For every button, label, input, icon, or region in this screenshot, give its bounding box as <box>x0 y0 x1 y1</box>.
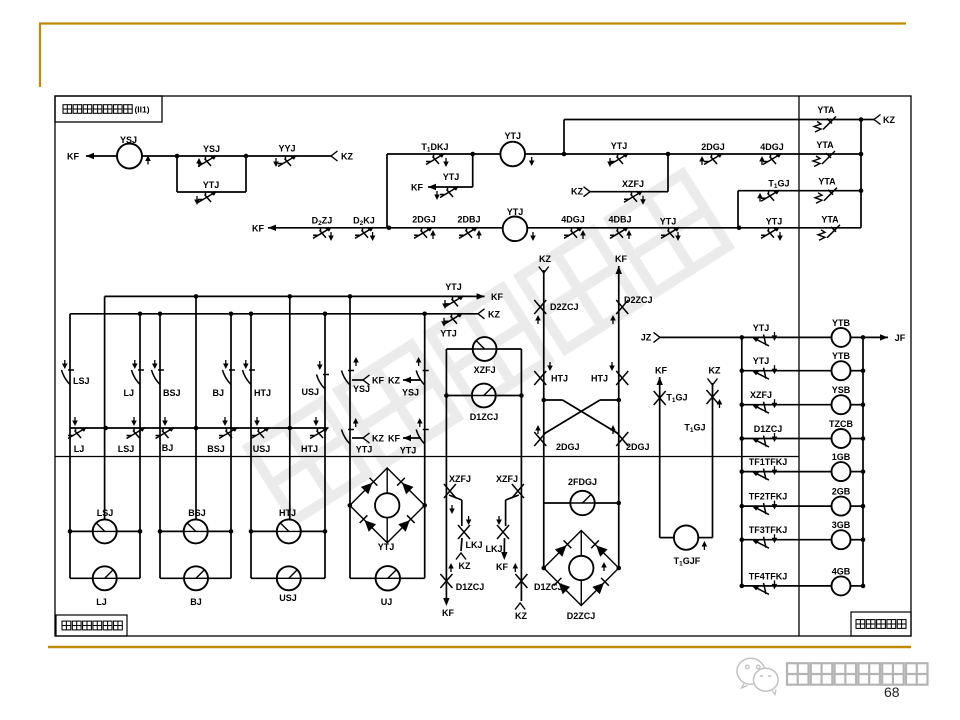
arrow up right 2DGJ <box>612 428 614 434</box>
svg-text:T1GJF: T1GJF <box>674 556 701 568</box>
vertical divider between signal building and control console <box>798 96 800 636</box>
svg-text:YTA: YTA <box>816 140 834 150</box>
svg-text:LJ: LJ <box>96 597 107 607</box>
contact YTJ (rail1 right) <box>445 296 464 307</box>
arrow down above LJ <box>134 360 136 366</box>
dropper YSJ-left vertical <box>349 296 351 578</box>
node B1 <box>470 152 475 157</box>
contact YTA (row0) <box>823 117 836 130</box>
console row TF3TFKJ -> 3GB <box>740 537 745 542</box>
arrow up right D2ZCJ <box>612 318 614 324</box>
contact YSJ (right dropper) <box>416 371 429 386</box>
node rail3 x196 <box>194 426 199 431</box>
arrow down at YTJ contact <box>196 196 198 202</box>
wire YTJ coil to node B2 <box>525 153 564 155</box>
svg-text:BSJ: BSJ <box>163 388 181 398</box>
dropper YSJ-right vertical <box>424 314 426 579</box>
svg-text:TF4TFKJ: TF4TFKJ <box>749 571 788 581</box>
terminal KF (branch) <box>428 184 436 190</box>
contact 2DBJ <box>459 227 478 238</box>
row2 wire <box>738 190 861 192</box>
svg-text:TZCB: TZCB <box>829 419 853 429</box>
rail3 wire <box>70 427 327 429</box>
rail2 wire <box>70 313 478 315</box>
arrow down above HTJ rail3 <box>315 417 317 423</box>
arrow down above USJ <box>319 361 321 367</box>
svg-text:YTJ: YTJ <box>443 172 460 182</box>
console row YTJ -> YTB <box>740 368 745 373</box>
svg-text:D1ZCJ: D1ZCJ <box>456 582 485 592</box>
svg-text:2FDGJ: 2FDGJ <box>568 477 597 487</box>
node B3 <box>666 152 671 157</box>
svg-text:BSJ: BSJ <box>188 508 206 518</box>
svg-text:D2ZCJ: D2ZCJ <box>624 295 653 305</box>
relay coil XZFJ <box>446 348 472 350</box>
footer text 考试复习资料 <box>787 663 809 685</box>
svg-text:D2ZCJ: D2ZCJ <box>567 611 596 621</box>
svg-text:TF3TFKJ: TF3TFKJ <box>749 525 788 535</box>
arrow up above YSJ right <box>418 360 420 366</box>
arrow down above LSJ <box>64 360 66 366</box>
arrow down mid left vertical <box>549 362 551 368</box>
arrow down above BJ <box>225 360 227 366</box>
console row XZFJ -> YSB <box>740 402 745 407</box>
relay coil YTJ (row1) <box>500 142 525 167</box>
svg-text:YSJ: YSJ <box>120 135 137 145</box>
T1GJ right vertical <box>712 383 714 538</box>
terminal JF <box>863 336 888 338</box>
node D2 <box>616 398 621 403</box>
relay coil D1ZCJ <box>446 395 472 397</box>
arrow down above HTJ <box>245 360 247 366</box>
contact YTJ (row1) <box>610 154 629 165</box>
svg-text:USJ: USJ <box>279 593 297 603</box>
KZ stub (lower) <box>352 437 363 439</box>
node box4 bridge right <box>422 503 427 508</box>
contact LKJ (chain A) <box>458 525 470 539</box>
box3 HTJ coil row <box>249 529 254 534</box>
svg-text:2DBJ: 2DBJ <box>457 214 480 224</box>
contact 4DBJ <box>610 227 629 238</box>
node C0 <box>859 117 864 122</box>
svg-text:YTA: YTA <box>821 214 839 224</box>
svg-text:TF2TFKJ: TF2TFKJ <box>749 492 788 502</box>
relay coil T1GJF <box>674 525 698 549</box>
svg-text:KF: KF <box>252 223 264 233</box>
svg-text:YTA: YTA <box>817 105 835 115</box>
riser node B2 to row0 <box>563 120 565 155</box>
svg-text:KZ: KZ <box>341 152 353 162</box>
dropper BSJ vertical <box>159 314 161 579</box>
bottom-right box 驼峰控制台 <box>851 612 911 636</box>
svg-text:KF: KF <box>655 366 667 376</box>
dropper LSJ vertical <box>69 314 71 579</box>
svg-text:2DGJ: 2DGJ <box>626 442 650 452</box>
contact T1GJ (row2) <box>761 190 780 201</box>
rail1 node x289 <box>288 294 293 299</box>
node A1 <box>175 154 180 159</box>
footer logo bubble 2 <box>754 668 779 691</box>
row1 wire right <box>564 153 861 155</box>
node box4 bridge left <box>348 503 353 508</box>
row2 riser <box>737 191 739 228</box>
node E1 <box>444 393 449 398</box>
svg-text:XZFJ: XZFJ <box>750 390 772 400</box>
svg-text:UJ: UJ <box>381 597 393 607</box>
contact USJ (rail3) <box>251 428 270 439</box>
terminal KF (row3) <box>268 225 276 231</box>
svg-text:YTJ: YTJ <box>203 180 220 190</box>
KF stub (upper) <box>352 379 363 381</box>
contact LKJ (chain B) <box>497 525 509 539</box>
arrow down above LJ rail3 <box>74 417 76 423</box>
dropper mid box1 <box>104 296 106 519</box>
bottom-left box 到达场集中楼 <box>56 615 127 636</box>
svg-text:TF1TFKJ: TF1TFKJ <box>749 457 788 467</box>
svg-text:2DGJ: 2DGJ <box>556 442 580 452</box>
arrow down at T1DKJ <box>445 158 447 164</box>
contact YTJ (rail2 right) <box>444 313 463 324</box>
console row TF1TFKJ -> 1GB <box>740 469 745 474</box>
dropper mid box3 <box>289 296 291 519</box>
svg-text:HTJ: HTJ <box>301 444 318 454</box>
svg-text:XZFJ: XZFJ <box>474 365 496 375</box>
svg-text:D1ZCJ: D1ZCJ <box>534 582 563 592</box>
chain A jog to LKJ <box>449 495 462 500</box>
contact T1GJ (left) <box>654 391 666 405</box>
node B5 <box>737 226 742 231</box>
slide top gold rule <box>39 22 906 24</box>
svg-text:KZ: KZ <box>488 309 500 319</box>
node A2 <box>244 154 249 159</box>
arrow up at T1GJ row2 <box>759 196 761 202</box>
rail2 node x251 <box>249 312 254 317</box>
svg-text:T1DKJ: T1DKJ <box>421 142 448 154</box>
arrow down at YTJ KF branch <box>436 191 438 197</box>
console row TF4TFKJ -> 4GB <box>740 584 745 589</box>
arrow up chain A lower <box>450 566 452 572</box>
contact 4DGJ (row1) <box>763 154 782 165</box>
T1GJ right corner to coil <box>698 537 712 539</box>
node bridge left <box>541 566 546 571</box>
bridge rectifier D2ZCJ <box>544 531 619 606</box>
rail1 node x196 <box>194 294 199 299</box>
contact LSJ (rail3) <box>127 428 146 439</box>
node E2 <box>519 393 524 398</box>
contact D1ZCJ (chain B) <box>515 574 527 588</box>
svg-text:YSJ: YSJ <box>402 388 419 398</box>
arrow up right T1GJ <box>719 402 721 408</box>
arrow up right of T1GJF <box>703 544 705 550</box>
svg-text:HTJ: HTJ <box>591 374 608 384</box>
contact XZFJ (branch) <box>624 191 643 202</box>
contact T1GJ (right) <box>707 390 719 404</box>
svg-text:T1GJ: T1GJ <box>768 179 789 191</box>
contact YTJ (lower branch) <box>198 192 217 203</box>
contact YTJ (KF branch) <box>440 187 459 198</box>
contact HTJ (left) <box>534 371 546 385</box>
svg-text:4DBJ: 4DBJ <box>608 214 631 224</box>
rail2 node x160 <box>158 312 163 317</box>
svg-text:KF: KF <box>411 183 423 193</box>
terminal KZ (row0) <box>861 119 874 121</box>
dropper HTJ vertical <box>250 314 252 579</box>
title box 驼峰上部信号楼 <box>55 96 162 122</box>
arrow down at rail1 YTJ <box>444 300 446 306</box>
arrow up left 2DGJ <box>537 428 539 434</box>
chain B main vertical <box>520 349 522 601</box>
box2 BSJ coil row <box>158 529 163 534</box>
box4 bottom UJ coil <box>350 577 376 579</box>
arrow down at YTJ row1 <box>609 158 611 164</box>
arrow up left D2ZCJ <box>537 318 539 324</box>
contact YYJ (to KZ) <box>278 156 297 167</box>
node bridge right <box>616 566 621 571</box>
contact YTJ (row3 mid) <box>661 227 680 238</box>
chain A KZ terminal <box>461 538 462 551</box>
box1 bottom LJ coil <box>70 577 93 579</box>
svg-text:KZ: KZ <box>571 187 583 197</box>
contact XZFJ (chain B) <box>512 484 524 498</box>
svg-text:YTJ: YTJ <box>504 131 521 141</box>
svg-text:LSJ: LSJ <box>97 508 114 518</box>
arrow down after YTJ coil <box>531 157 533 163</box>
relay coil YSJ <box>117 144 142 169</box>
svg-text:KZ: KZ <box>515 611 527 621</box>
cross wire right-to-left <box>600 399 619 401</box>
rail1 wire <box>105 295 472 297</box>
svg-text:YTJ: YTJ <box>356 445 373 455</box>
row3 wire <box>268 227 861 229</box>
svg-text:BSJ: BSJ <box>207 444 225 454</box>
svg-text:YTJ: YTJ <box>445 282 462 292</box>
arrow down at YTJ row3 right <box>779 232 781 238</box>
svg-text:LSJ: LSJ <box>73 376 90 386</box>
arrow down above BSJ rail3 <box>224 417 226 423</box>
T1GJ left vertical <box>659 377 661 538</box>
svg-text:4GB: 4GB <box>832 566 851 576</box>
dropper BJ vertical <box>230 314 232 579</box>
arrow up at YSJ contact <box>198 161 200 167</box>
contact YTJ (right dropper lower) <box>416 430 429 445</box>
svg-text:KF: KF <box>442 608 454 618</box>
right bus riser YTA column <box>860 120 862 228</box>
svg-text:4DGJ: 4DGJ <box>561 214 585 224</box>
svg-text:KZ: KZ <box>459 561 471 571</box>
riser XZFJ branch to node B3 <box>667 154 669 192</box>
arrow down chain A jog <box>468 516 470 522</box>
contact USJ <box>317 375 330 390</box>
contact D2KJ <box>355 227 374 238</box>
bottom-left text 到达场集中楼 <box>62 621 71 630</box>
title text 驼峰上部信号楼(II1) <box>63 105 72 114</box>
svg-text:YTJ: YTJ <box>766 216 783 226</box>
left riser of T1DKJ network <box>386 154 388 228</box>
svg-text:LKJ: LKJ <box>485 544 502 554</box>
contact YTA (row3) <box>827 225 840 238</box>
svg-text:YYJ: YYJ <box>278 144 295 154</box>
arrow down after YTJ coil row3 <box>532 232 534 238</box>
svg-text:YTJ: YTJ <box>440 329 457 339</box>
console row TF2TFKJ -> 2GB <box>740 504 745 509</box>
svg-text:1GB: 1GB <box>832 452 851 462</box>
svg-text:2GB: 2GB <box>832 487 851 497</box>
box2 bottom BJ coil <box>160 577 184 579</box>
console left bus <box>741 337 743 586</box>
arrow down mid right vertical <box>611 362 613 368</box>
box3 bottom USJ coil <box>251 577 277 579</box>
svg-text:BJ: BJ <box>162 443 174 453</box>
svg-text:XZFJ: XZFJ <box>496 474 518 484</box>
svg-text:KF: KF <box>67 152 79 162</box>
slide bottom gold rule <box>48 646 911 649</box>
row1 wire left <box>387 153 473 155</box>
schematic outer frame <box>55 96 911 636</box>
svg-text:XZFJ: XZFJ <box>622 179 644 189</box>
cross wire left-to-right <box>544 399 563 401</box>
rail2 node x231 <box>229 312 234 317</box>
contact 2DGJ (right vertical) <box>616 432 628 446</box>
horizontal divider rail (y=456) <box>55 456 799 458</box>
node C1 <box>859 152 864 157</box>
svg-text:2DGJ: 2DGJ <box>412 214 436 224</box>
arrow up at 4DGJ row3 <box>582 233 584 239</box>
node D1 <box>541 398 546 403</box>
svg-text:HTJ: HTJ <box>551 374 568 384</box>
svg-text:YTJ: YTJ <box>753 356 770 366</box>
svg-text:LJ: LJ <box>123 388 134 398</box>
arrow up in D2ZCJ bridge <box>603 565 605 571</box>
node rail3 x105 <box>103 426 108 431</box>
console right bus <box>862 337 864 586</box>
terminal KF (rail1) <box>472 295 485 297</box>
rail1 node x350 <box>348 294 353 299</box>
svg-text:YTB: YTB <box>832 318 851 328</box>
arrow down chain B jog <box>498 516 500 522</box>
svg-text:KZ: KZ <box>372 434 384 444</box>
arrow up at 4DBJ <box>628 233 630 239</box>
contact 2DGJ (row3) <box>414 227 433 238</box>
T1GJ left corner to coil <box>660 537 674 539</box>
dropper mid box2 <box>195 296 197 519</box>
terminal KF chain A <box>443 598 449 606</box>
svg-text:HTJ: HTJ <box>254 388 271 398</box>
svg-text:D2ZJ: D2ZJ <box>312 215 333 227</box>
svg-text:LSJ: LSJ <box>118 444 135 454</box>
contact HTJ (right) <box>616 371 628 385</box>
arrow down above BSJ <box>154 360 156 366</box>
node rail3 x289 <box>288 426 293 431</box>
watermark 非会员水印 <box>249 402 368 521</box>
svg-text:YTJ: YTJ <box>400 446 417 456</box>
chain B jog to LKJ <box>506 495 519 500</box>
arrow up above YTJ right lower <box>419 421 421 427</box>
dropper USJ vertical <box>324 314 326 579</box>
arrow down at D2KJ <box>372 232 374 238</box>
svg-text:(II1): (II1) <box>134 105 149 115</box>
node B4 <box>387 226 392 231</box>
KF branch riser <box>472 154 474 187</box>
arrow down above LSJ rail3 <box>133 417 135 423</box>
svg-text:HTJ: HTJ <box>279 508 296 518</box>
svg-text:KF: KF <box>496 562 508 572</box>
lower branch wires <box>176 156 178 192</box>
svg-text:KF: KF <box>372 376 384 386</box>
svg-text:YTJ: YTJ <box>660 216 677 226</box>
contact YSJ (left dropper) <box>342 371 355 386</box>
svg-text:4DGJ: 4DGJ <box>760 142 784 152</box>
terminal KZ chain B <box>515 603 525 610</box>
arrow down at rail2 YTJ <box>443 318 445 324</box>
contact XZFJ (chain A) <box>444 484 456 498</box>
svg-text:LKJ: LKJ <box>465 540 482 550</box>
svg-text:YTA: YTA <box>818 177 836 187</box>
box1 LSJ coil row <box>68 529 73 534</box>
arrow down above USJ rail3 <box>256 417 258 423</box>
contact LJ <box>132 370 145 385</box>
contact D1ZCJ (chain A) <box>440 574 452 588</box>
contact YTA (row2) <box>824 188 837 201</box>
svg-text:68: 68 <box>884 684 900 700</box>
arrow down chain A upper <box>451 505 453 511</box>
arrow down at YTJ row3 mid <box>677 232 679 238</box>
svg-text:KF: KF <box>388 434 400 444</box>
arrow down at YYJ contact <box>275 158 277 164</box>
arrow up at 4DGJ row1 <box>761 159 763 165</box>
node B2 <box>562 152 567 157</box>
svg-text:D2KJ: D2KJ <box>353 215 375 227</box>
svg-text:YTJ: YTJ <box>507 207 524 217</box>
svg-text:YTJ: YTJ <box>611 141 628 151</box>
svg-text:KZ: KZ <box>883 115 895 125</box>
dropper LJ vertical <box>139 314 141 579</box>
node C2 <box>859 188 864 193</box>
rail2 node x325 <box>323 312 328 317</box>
arrow up at 2DGJ row3 <box>432 233 434 239</box>
svg-text:D2ZCJ: D2ZCJ <box>550 302 579 312</box>
console row YTJ -> YTB <box>740 335 745 340</box>
terminal KZ (top-left) <box>331 151 338 161</box>
bridge rectifier YTJ (box4) <box>350 468 425 543</box>
svg-text:D1ZCJ: D1ZCJ <box>754 424 783 434</box>
arrow down above BJ rail3 <box>164 417 166 423</box>
footer logo bubble 1 <box>737 658 765 684</box>
wire YSJ coil to node <box>142 155 177 157</box>
contact BJ <box>223 370 236 385</box>
arrow up above YSJ left <box>355 360 357 366</box>
svg-text:YSJ: YSJ <box>203 144 220 154</box>
contact BJ (rail3) <box>156 428 175 439</box>
contact HTJ <box>243 370 256 385</box>
contact YTJ (left dropper lower) <box>342 430 355 445</box>
contact YTJ (row3 right) <box>761 227 780 238</box>
contact BSJ (rail3) <box>219 428 238 439</box>
svg-text:USJ: USJ <box>301 387 319 397</box>
console row D1ZCJ -> TZCB <box>740 436 745 441</box>
contact 2DGJ (left vertical) <box>534 432 546 446</box>
contact T1DKJ <box>426 154 445 165</box>
terminal KZ (rail2) <box>478 309 485 319</box>
JZ wire to bus <box>660 336 742 338</box>
wire node A1 to node A2 (upper branch) <box>177 155 246 157</box>
svg-text:BJ: BJ <box>190 597 202 607</box>
svg-text:JZ: JZ <box>641 333 652 343</box>
svg-text:T1GJ: T1GJ <box>666 393 687 405</box>
bottom-right text 驼峰控制台 <box>856 620 865 629</box>
svg-text:KZ: KZ <box>539 254 551 264</box>
wire node A2 to KZ <box>246 155 331 157</box>
relay coil YTJ (row3) <box>503 217 528 242</box>
